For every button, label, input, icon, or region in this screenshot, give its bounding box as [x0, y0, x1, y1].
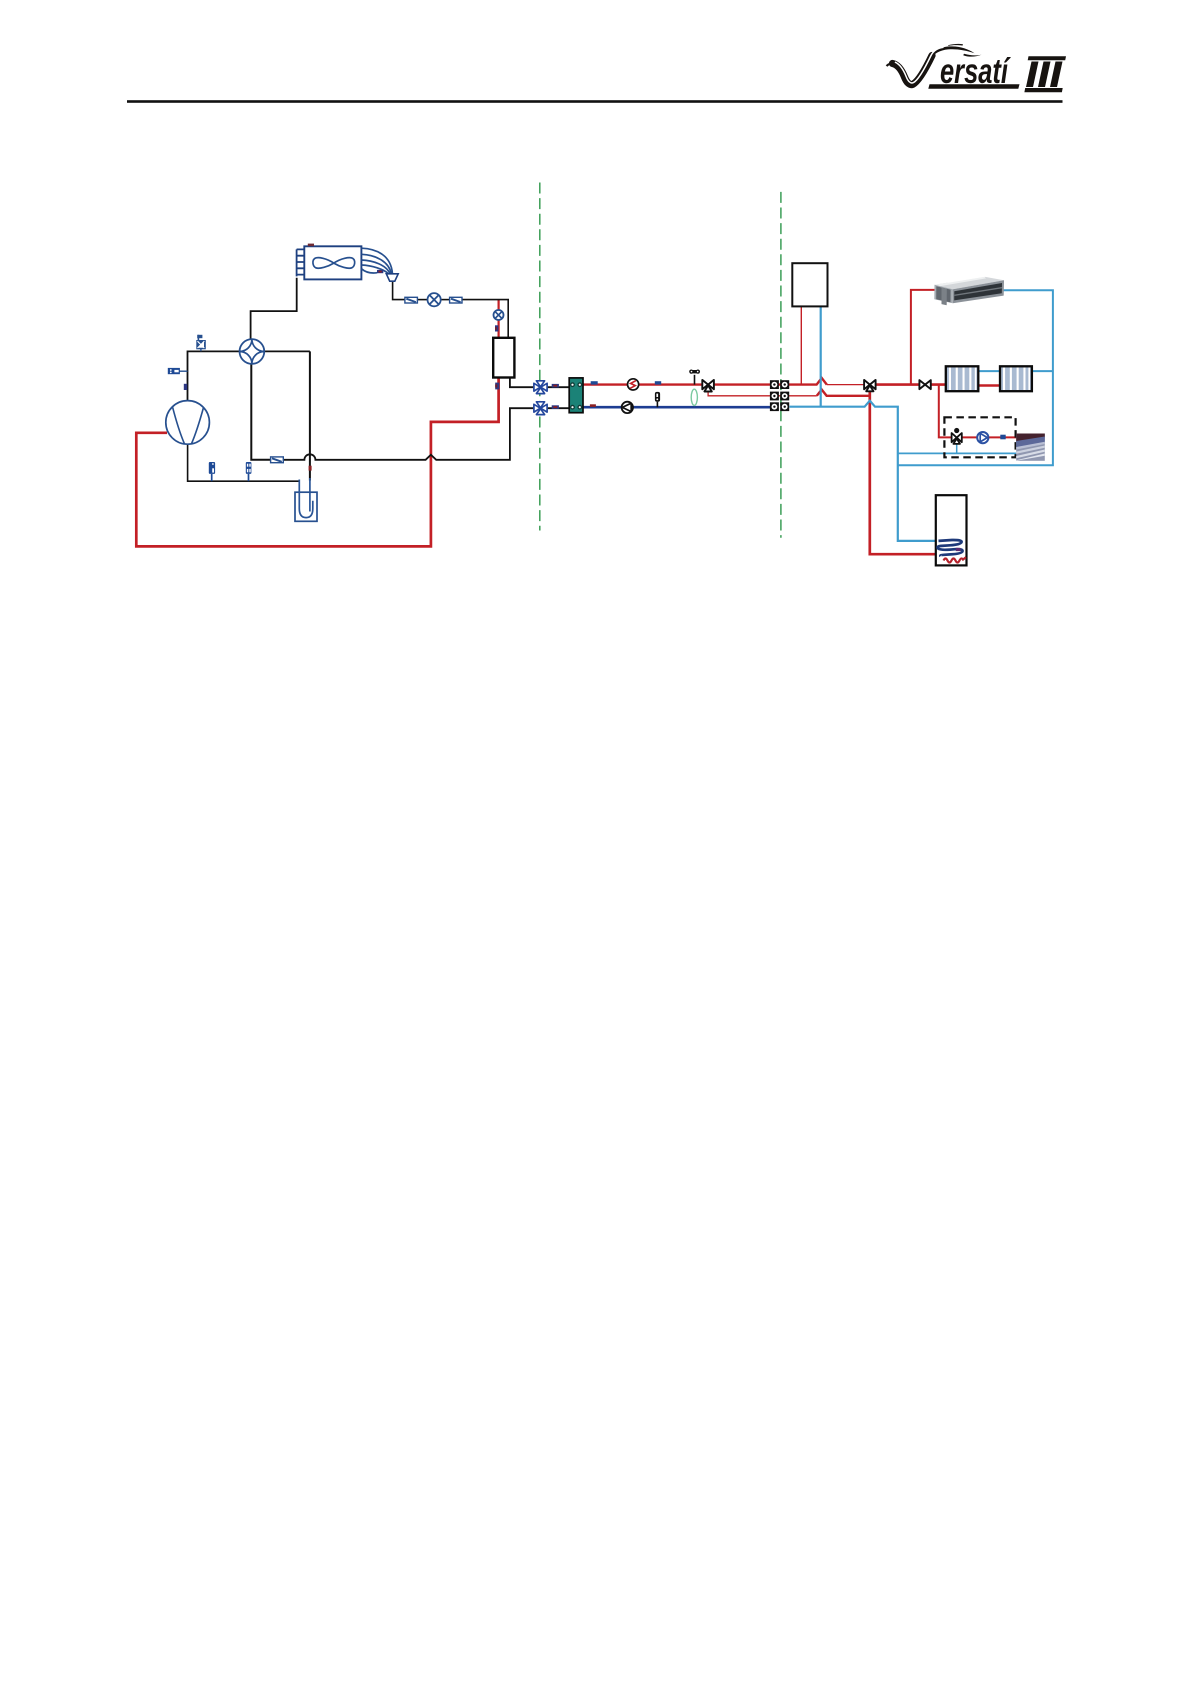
sensor beside top shut-off valve — [552, 384, 559, 388]
tank electric heater — [944, 557, 967, 562]
wire: light blue fan-coil/radiator return — [898, 290, 1053, 465]
automatic air vent — [689, 370, 700, 385]
wire: light blue leg of expansion tank box — [820, 306, 822, 406]
sensor on red line above HX — [495, 325, 498, 331]
sensor in mixing station — [1000, 435, 1005, 440]
wire: navy return main from plate HX — [583, 406, 771, 409]
wire: light blue mixing valve return stub — [956, 444, 958, 454]
floor heating pump — [977, 432, 988, 443]
wire: black discharge pipe from funnel through filters to HX top — [393, 281, 509, 338]
wire: red liquid line loop (HX bottom to compressor) — [136, 378, 498, 547]
filter on suction line — [271, 457, 284, 463]
indoor/outdoor separator (green dashed line 1) — [539, 183, 541, 531]
radiator 1 — [946, 366, 979, 391]
DHW water tank — [936, 495, 967, 565]
wire: black pipe 4-way valve right then down to accumulator dip tube — [264, 351, 310, 511]
wire: light blue floor-heating return branch — [898, 452, 1017, 454]
suction line sensor 2 — [246, 462, 252, 481]
pressure switch with flag — [196, 335, 206, 350]
wire: red line from black pipe tee down to plate HX top — [498, 300, 500, 338]
tank coil — [937, 540, 962, 556]
pressure gauge — [168, 368, 180, 374]
wire: red drop to floor-heating mixing station — [939, 385, 1017, 438]
wire: red riser to fan coil unit — [911, 290, 936, 385]
circulation pump (built-in) — [622, 402, 633, 413]
underline — [928, 84, 1019, 89]
suction line sensor 1 — [209, 462, 215, 481]
expansion vessel (green ellipse) — [691, 389, 697, 405]
electronic expansion valve — [428, 293, 441, 306]
wire: red heating supply main — [583, 378, 946, 385]
filter drier 1 — [405, 297, 418, 303]
wire: light blue return main right of unions — [789, 401, 937, 541]
flow switch — [628, 379, 639, 390]
wire: black pipe 4-way valve left to compressor top — [188, 351, 240, 401]
sensor beside bottom shut-off valve — [552, 405, 559, 409]
separator (green dashed line 2) — [780, 192, 782, 538]
sensor on red line below HX — [495, 383, 499, 390]
sensor on supply after flow switch — [655, 381, 661, 384]
economizer plate heat exchanger (teal) — [569, 378, 583, 413]
wire: stub to pressure gauge — [180, 370, 188, 372]
union pair on supply — [770, 380, 789, 389]
sensor on suction riser — [309, 466, 312, 471]
wire: black pipe plate HX bottom to economizer top port — [510, 378, 569, 388]
4-way valve — [240, 339, 265, 364]
V swoosh — [887, 63, 895, 66]
air discharge arcs — [362, 248, 393, 274]
wire: red connector between radiators — [978, 384, 1000, 387]
floor heating photo — [1016, 434, 1045, 461]
temperature sensor on return — [655, 392, 660, 407]
solenoid valve on red line — [494, 310, 504, 320]
sensor on return near HX — [590, 404, 596, 407]
wire: red pipe to DHW tank coil — [870, 391, 937, 554]
sensor on discharge line — [184, 384, 187, 390]
fan coil unit (ducted, photo style) — [934, 271, 1004, 305]
III bars — [1028, 56, 1066, 60]
wire: stub to pressure switch — [200, 349, 202, 351]
3-way valve V1 on supply — [702, 380, 714, 392]
radiator 2 — [1000, 366, 1032, 391]
wire: black suction pipe 4-way valve bottom, along y=459.8 to riser x=509.9 — [251, 364, 569, 460]
sensor on supply near HX — [591, 381, 598, 384]
plate heat exchanger (refrigerant/water) — [493, 338, 514, 378]
wire: red bypass line from 3-way valve — [708, 390, 870, 396]
compressor — [166, 401, 210, 445]
shut-off valve bottom (at separator) — [534, 402, 547, 415]
header rule — [127, 100, 1063, 103]
shut-off valve top (at separator) — [534, 381, 547, 394]
mixing valve (floor heating) — [952, 428, 962, 444]
fan coil evaporator unit — [297, 244, 362, 280]
logo Versati III — [887, 44, 1067, 92]
filter drier 2 — [450, 297, 462, 303]
accumulator — [295, 480, 317, 522]
wire: black suction pipe compressor bottom to accumulator U-tube — [188, 444, 300, 481]
air funnel — [386, 274, 398, 281]
wire: black pipe fan coil left port down-left to 4-way valve top — [251, 278, 297, 340]
union pair on bypass — [770, 392, 789, 401]
3-way diverting valve V2 — [864, 380, 876, 391]
union pair on return — [770, 402, 789, 411]
sensor on air outlet — [377, 270, 383, 273]
floor heating mixing station (dashed box) — [944, 417, 1015, 457]
shut-off valve before radiators — [919, 380, 930, 389]
wire: red leg of expansion tank box — [800, 306, 802, 384]
expansion tank box — [792, 263, 827, 306]
